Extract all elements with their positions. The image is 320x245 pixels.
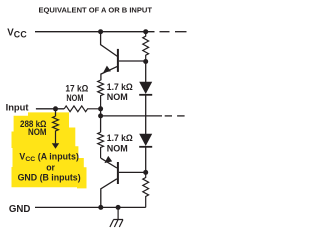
resistor top right [143, 32, 149, 62]
Vcc rail [35, 31, 155, 33]
Vcc rail dashes [160, 31, 170, 33]
svg-text:NOM: NOM [107, 92, 128, 102]
transistor Q2 bar [117, 162, 119, 184]
arrow to Vcc/GND [52, 143, 59, 149]
GND rail [35, 206, 146, 208]
svg-text:Input: Input [6, 101, 29, 112]
transistor Q2 collector wire [101, 179, 117, 208]
diode D2 wire [145, 116, 147, 134]
svg-text:1.7 kΩ: 1.7 kΩ [107, 133, 133, 143]
resistor 1.7k #2 [98, 132, 104, 158]
node input-288k [53, 106, 58, 111]
transistor Q1 emitter arrow [103, 66, 111, 73]
diode D1 wire [145, 62, 147, 83]
transistor Q2 base wire [119, 171, 146, 173]
diode D1 cathode wire [145, 95, 147, 116]
svg-text:GND: GND [9, 204, 31, 215]
resistor 288k wire from input [55, 109, 57, 116]
node Vcc-Rtop [143, 29, 148, 34]
transistor Q1 base wire [119, 60, 146, 62]
mid rail dashes [165, 115, 172, 117]
resistor bottom right [143, 172, 149, 207]
svg-text:1.7 kΩ: 1.7 kΩ [107, 82, 133, 92]
svg-text:or: or [46, 162, 55, 172]
transistor Q1 collector wire [101, 32, 118, 57]
transistor Q2 emitter arrow [104, 156, 112, 163]
ground symbol node [116, 205, 121, 210]
node base Q1 [143, 59, 148, 64]
svg-text:GND (B inputs): GND (B inputs) [18, 172, 81, 182]
transistor Q1 bar [117, 49, 119, 72]
resistor 17k [64, 106, 100, 112]
yellow highlight [12, 112, 87, 188]
input wire [36, 108, 64, 110]
node Vcc-Q1 [98, 29, 103, 34]
svg-text:NOM: NOM [66, 93, 83, 103]
node base Q2 [143, 170, 148, 175]
svg-text:NOM: NOM [28, 127, 47, 137]
diode D1 [139, 82, 152, 94]
resistor 1.7k #1 [98, 80, 104, 109]
transistor Q1 emitter wire [101, 66, 118, 80]
wire node A to B to R2 [100, 109, 102, 132]
resistor 288k [53, 116, 59, 143]
diode D2 cathode wire [145, 147, 147, 173]
ground symbol [110, 207, 123, 227]
node A [98, 106, 103, 111]
diode D2 [139, 134, 152, 146]
svg-text:VCC: VCC [7, 27, 27, 39]
svg-text:EQUIVALENT OF A OR B INPUT: EQUIVALENT OF A OR B INPUT [39, 5, 153, 14]
mid rail [101, 115, 162, 117]
node B [98, 113, 103, 118]
node Q2c-GND [98, 205, 103, 210]
transistor Q2 emitter wire [101, 158, 117, 168]
svg-text:NOM: NOM [107, 143, 128, 153]
svg-text:17 kΩ: 17 kΩ [65, 83, 88, 93]
